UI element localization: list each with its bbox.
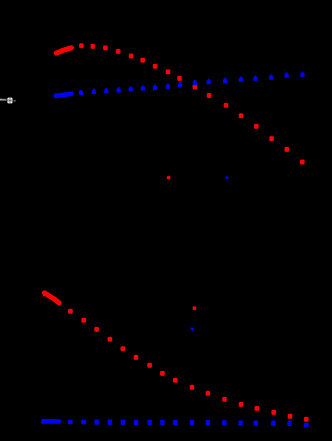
bottom blue series error bar (first point) [42,419,44,425]
top red series data points [79,43,305,164]
top blue series dense early-time streak [56,94,71,96]
bottom red series error bar (first point) [43,292,45,297]
bottom red series data points [68,309,309,422]
bottom red series dense early-time streak [44,293,59,303]
top blue series error bar (first point) [54,93,56,98]
top legend red marker [167,176,171,180]
ylabel fragment glyph cluster (top subplot, left edge) [0,98,16,104]
top blue series data points (triangle-up markers) [79,72,305,95]
top red series error bar (first point) [55,51,57,56]
top red series dense early-time streak [56,48,71,53]
bottom legend blue marker [190,328,194,332]
bottom blue series dense early-time streak [43,419,59,424]
top legend blue marker [225,175,229,178]
bottom blue series data points (triangle-down markers with error whiskers) [68,419,309,427]
bottom legend red marker [193,306,197,310]
